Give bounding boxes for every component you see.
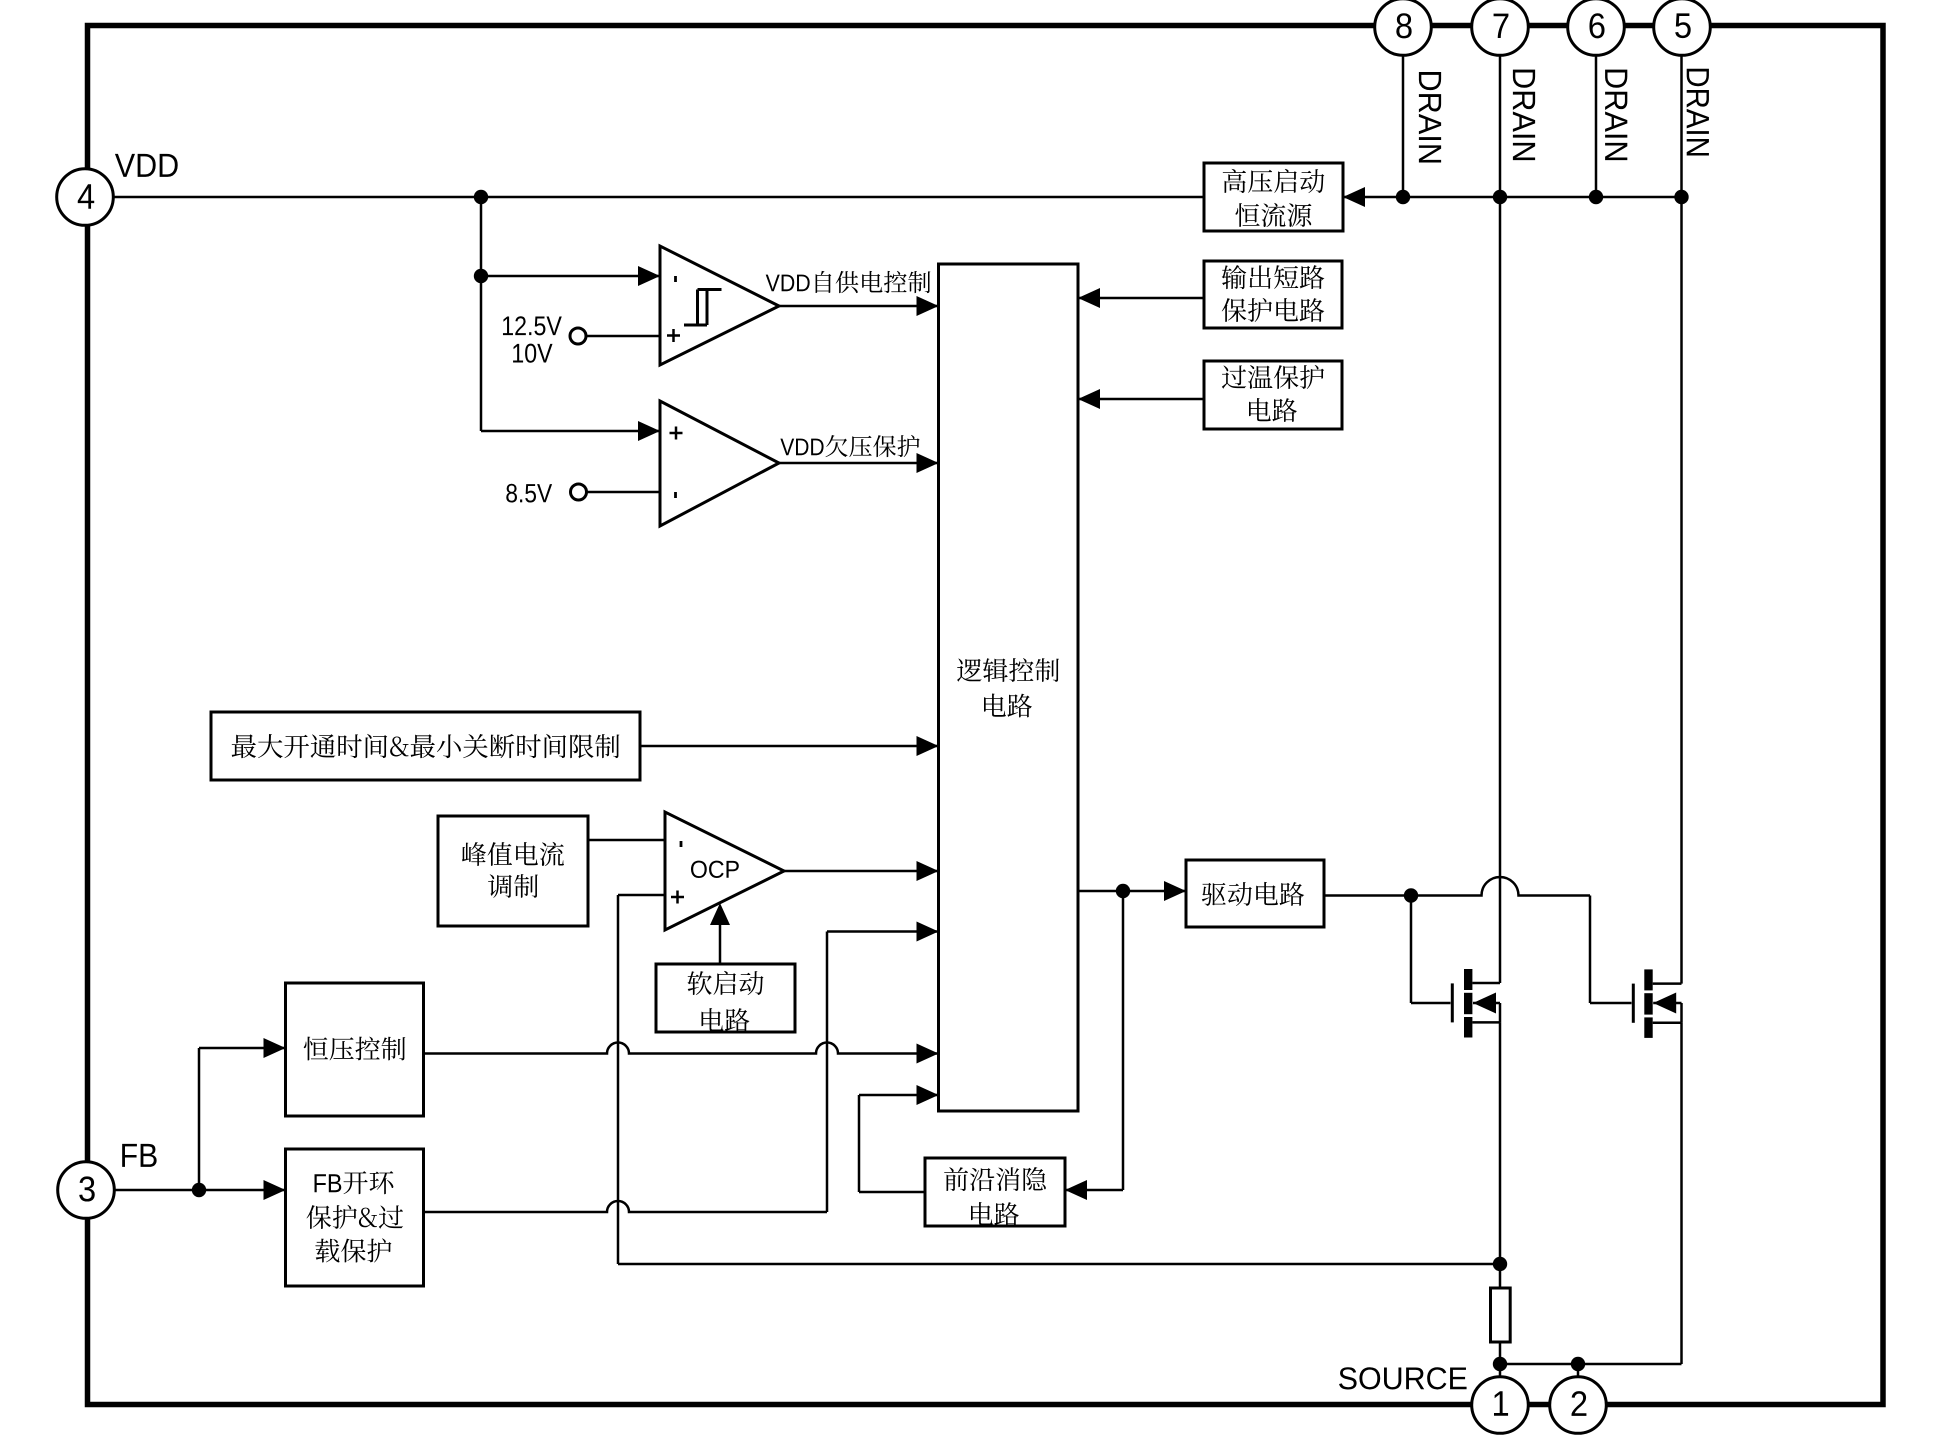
U2 minus label bbox=[674, 492, 677, 498]
U3 plus label bbox=[671, 891, 684, 904]
op-amp U3 (OCP comparator) bbox=[665, 812, 784, 930]
node FB branch bbox=[192, 1183, 206, 1197]
wire pin 5 drain to Q2 bbox=[1680, 55, 1683, 983]
text logic line1 bbox=[957, 658, 1059, 682]
transistor Q1 (power MOSFET, pin7 drain) bbox=[1452, 969, 1500, 1038]
wire pin 3 FB bbox=[114, 1180, 285, 1200]
wire to U2 non-inverting input bbox=[481, 421, 660, 441]
node source junction pin 1 bbox=[1493, 1357, 1507, 1371]
pin 7 (DRAIN) bbox=[1472, 0, 1529, 55]
wire VDD branch vertical bbox=[480, 197, 483, 431]
text soft start line1 bbox=[688, 971, 764, 995]
text drive bbox=[1202, 882, 1304, 906]
wire drain junction rail bbox=[1343, 187, 1682, 207]
wire CV control output to logic bbox=[424, 1043, 939, 1064]
wire sense resistor to pin 1 bbox=[1499, 1342, 1502, 1377]
pin 5 number bbox=[1675, 13, 1690, 38]
net label FB bbox=[122, 1144, 156, 1167]
op-amp U1 (VDD self-supply comparator) bbox=[660, 246, 779, 365]
block soft start bbox=[656, 964, 795, 1032]
node drive-gate tap bbox=[1404, 888, 1418, 902]
text time limit bbox=[232, 734, 620, 758]
node logic-drive tap bbox=[1116, 884, 1130, 898]
block FB open-loop & overload protection bbox=[286, 1149, 424, 1286]
text logic line2 bbox=[984, 694, 1032, 718]
pin 2 number bbox=[1572, 1391, 1587, 1416]
pin 7 number bbox=[1494, 14, 1509, 38]
label OCP bbox=[691, 861, 739, 878]
text LEB line2 bbox=[971, 1202, 1019, 1226]
text CV control bbox=[304, 1037, 406, 1061]
wire peak-current block to U3 inverting input bbox=[588, 839, 665, 842]
text peak current line2 bbox=[488, 874, 538, 898]
wire U2 output (VDD UVLO) bbox=[779, 453, 939, 473]
U1 hysteresis symbol bbox=[684, 290, 722, 326]
wire pin 7 drain to Q1 bbox=[1499, 55, 1502, 983]
wire U3 OCP output bbox=[784, 861, 939, 881]
wire VDD rail from pin 4 to HV startup block bbox=[114, 196, 1204, 199]
wire LEB output to logic bbox=[859, 1085, 939, 1192]
net label DRAIN (pin 5) bbox=[1687, 69, 1709, 156]
node drain pin 7 junction bbox=[1493, 190, 1507, 204]
text peak current line1 bbox=[462, 842, 564, 866]
wire pin 6 drain bbox=[1595, 55, 1598, 197]
terminal 8.5V reference bbox=[571, 484, 587, 500]
text LEB line1 bbox=[944, 1167, 1046, 1191]
net label SOURCE bbox=[1339, 1367, 1466, 1389]
wire Q1 gate branch bbox=[1411, 896, 1451, 1004]
block leading-edge blanking bbox=[925, 1158, 1065, 1226]
net label DRAIN (pin 6) bbox=[1605, 70, 1627, 160]
wire max-on/min-off limit to logic bbox=[640, 736, 939, 756]
node VDD rail junction bbox=[474, 190, 488, 204]
pin 4 number bbox=[78, 184, 94, 208]
wire current sense to U3 + input bbox=[618, 895, 665, 1264]
text FB protection line2 bbox=[307, 1205, 404, 1229]
pin 8 number bbox=[1396, 13, 1411, 38]
wire logic to drive block bbox=[1078, 881, 1186, 901]
signal label VDD UVLO bbox=[780, 435, 919, 457]
block logic control bbox=[939, 264, 1079, 1111]
pin 6 (DRAIN) bbox=[1568, 0, 1625, 55]
pin 1 number bbox=[1494, 1391, 1508, 1415]
wire pin 8 drain bbox=[1402, 55, 1405, 197]
wire FB protection output bbox=[424, 922, 939, 1213]
wire Q2 source down bbox=[1680, 1023, 1683, 1364]
block over-temperature protection bbox=[1204, 361, 1342, 429]
op-amp U2 (VDD UVLO comparator) bbox=[660, 401, 779, 526]
wire source bottom run bbox=[1500, 1364, 1682, 1377]
block peak current modulation bbox=[438, 816, 588, 926]
block HV startup constant current source bbox=[1204, 163, 1343, 231]
U2 plus label bbox=[670, 427, 683, 440]
wire soft-start to U3 bbox=[710, 903, 730, 964]
pin 3 number bbox=[79, 1176, 94, 1201]
node U1 input branch bbox=[474, 269, 488, 283]
U1 plus label bbox=[667, 329, 680, 342]
value label 8.5V bbox=[506, 484, 552, 503]
wire short-circuit-protect to logic bbox=[1078, 288, 1204, 308]
net label VDD bbox=[115, 154, 178, 177]
transistor Q2 (power MOSFET, pin5 drain) bbox=[1633, 969, 1681, 1038]
block drive circuit bbox=[1186, 860, 1324, 927]
value label 12.5V / 10V bbox=[503, 316, 562, 363]
wire current sense bottom run bbox=[618, 1263, 1500, 1266]
text OTP line2 bbox=[1249, 398, 1297, 422]
node sense junction bbox=[1493, 1257, 1507, 1271]
text HV startup line1 bbox=[1223, 169, 1325, 193]
text FB protection line1 bbox=[315, 1171, 394, 1194]
node drain pin 8 junction bbox=[1396, 190, 1410, 204]
text short-circuit line1 bbox=[1222, 265, 1325, 289]
signal label VDD self-supply control bbox=[766, 271, 931, 293]
wire U1 output (VDD self-supply control) bbox=[779, 296, 939, 316]
wire drive output to gates bbox=[1324, 877, 1632, 1003]
block CV control bbox=[286, 983, 424, 1116]
block max on-time & min off-time limit bbox=[211, 712, 640, 780]
pin 8 (DRAIN) bbox=[1375, 0, 1432, 55]
pin 6 number bbox=[1589, 13, 1604, 38]
node drain pin 5 junction bbox=[1674, 190, 1688, 204]
node drain pin 6 junction bbox=[1589, 190, 1603, 204]
pin 3 (FB) bbox=[58, 1162, 115, 1219]
pin 5 (DRAIN) bbox=[1654, 0, 1711, 55]
terminal 12.5V/10V reference bbox=[570, 328, 586, 344]
U3 minus label bbox=[680, 841, 683, 847]
wire FB to CV control bbox=[199, 1038, 286, 1190]
node source junction pin 2 bbox=[1571, 1357, 1585, 1371]
pin 1 (SOURCE) bbox=[1472, 1377, 1529, 1434]
pin 4 (VDD) bbox=[57, 169, 114, 226]
text OTP line1 bbox=[1222, 365, 1324, 389]
text HV startup line2 bbox=[1235, 203, 1311, 227]
wire 12.5V/10V reference to U1 bbox=[587, 335, 660, 338]
wire drive tap to LEB bbox=[1065, 891, 1123, 1200]
net label DRAIN (pin 7) bbox=[1513, 70, 1535, 160]
wire to U1 inverting input bbox=[481, 266, 660, 286]
wire OTP to logic bbox=[1078, 389, 1204, 409]
net label DRAIN (pin 8) bbox=[1419, 72, 1441, 162]
block output short-circuit protection bbox=[1204, 261, 1342, 328]
wire Q1 source to sense resistor bbox=[1499, 1022, 1502, 1288]
text FB protection line3 bbox=[315, 1238, 391, 1262]
U1 minus label bbox=[674, 276, 677, 282]
text short-circuit line2 bbox=[1222, 298, 1325, 322]
text soft start line2 bbox=[702, 1008, 750, 1032]
wire 8.5V reference to U2 bbox=[587, 491, 660, 494]
pin 2 (SOURCE) bbox=[1550, 1377, 1607, 1434]
resistor R1 (current sense) bbox=[1491, 1288, 1511, 1342]
